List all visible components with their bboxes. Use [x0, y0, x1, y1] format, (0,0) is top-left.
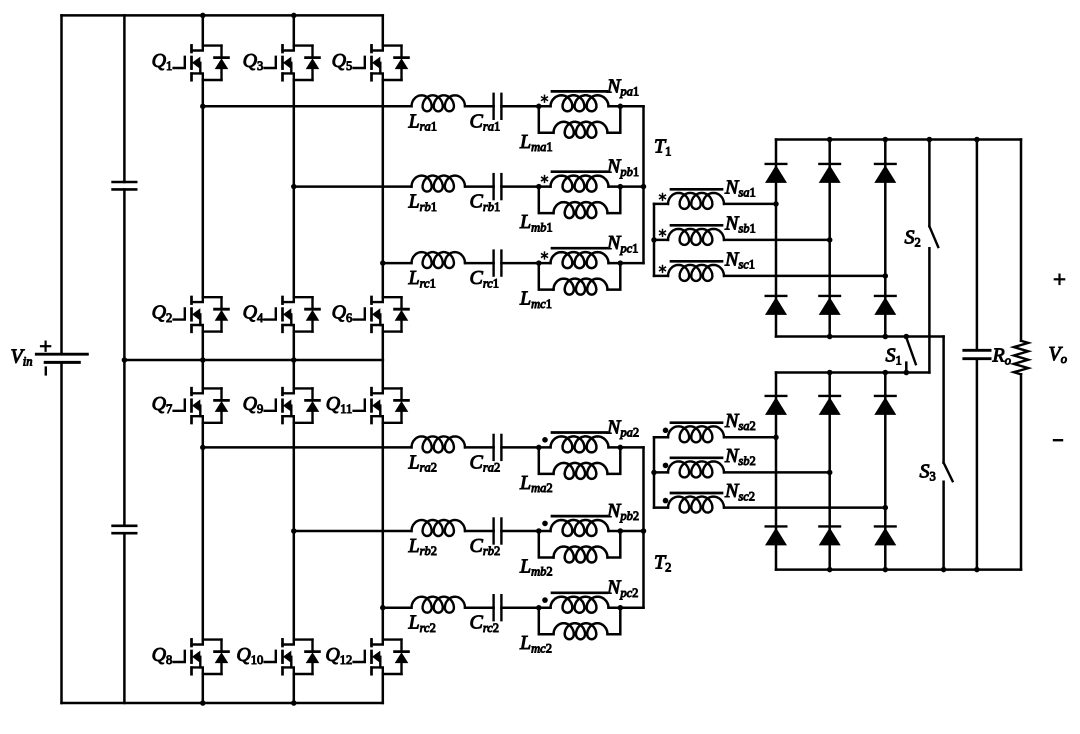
label Lrb2: [408, 535, 438, 558]
wire phase a1 from leg1 to Lra1: [203, 105, 412, 108]
polarity mark primary b1: [542, 176, 548, 183]
node primary a2 right: [618, 445, 624, 451]
polarity mark primary b2: [542, 521, 548, 527]
label Npa1: [606, 75, 639, 98]
node top rail leg1: [200, 13, 206, 19]
node rect1 bottom S1: [904, 334, 910, 340]
wire Lrc1 to Crc1: [465, 262, 494, 265]
node rect2 bottom Co: [974, 567, 980, 573]
label Q12: [325, 644, 352, 667]
node phase a2 tap on leg1: [200, 445, 206, 451]
wire secondary sa1 to rectifier leg1: [724, 203, 776, 206]
switch S3: [944, 463, 953, 570]
node phase a1 tap on leg1: [200, 104, 206, 110]
diode D23 rect2 top leg2: [819, 396, 841, 415]
winding Npc1: [551, 252, 609, 268]
label S3: [920, 461, 936, 484]
polarity mark secondary sa1: [660, 194, 666, 201]
label Crc1: [470, 267, 500, 290]
winding Npb2: [551, 520, 609, 536]
core bar Nsa2: [671, 421, 722, 424]
wire rectifier2 leg3: [884, 373, 887, 570]
node secondary sc1 at leg: [883, 273, 889, 279]
winding Nsb2: [668, 461, 724, 477]
winding Npb1: [551, 176, 609, 192]
label Nsa1: [724, 176, 756, 199]
polarity mark secondary sb2: [663, 463, 669, 469]
node top rail leg2r: [827, 137, 833, 143]
label Q2: [152, 302, 173, 325]
wire input cap bus middle: [123, 189, 126, 525]
wire phase c2 from leg3 to Lrc2: [383, 606, 412, 609]
wire rectifier1 leg1: [775, 140, 778, 337]
inductor Lrc1: [412, 252, 466, 268]
wire bottom rail: [62, 702, 383, 705]
transistor Q11: [354, 388, 409, 423]
inductor Lmc1: [539, 263, 621, 295]
capacitor Crb2: [494, 519, 502, 544]
node rect2 bottom leg3: [883, 567, 889, 573]
capacitor Crb1: [494, 174, 502, 199]
capacitor Co: [964, 350, 990, 358]
inductor Lmb2: [539, 531, 621, 563]
label Cra2: [470, 451, 501, 474]
label Q11: [326, 393, 353, 416]
wire secondary sc1 bus stub: [654, 275, 668, 278]
wire mid rail: [124, 359, 382, 362]
winding Nsa1: [668, 193, 724, 209]
capacitor input upper: [113, 182, 137, 189]
label plus output: [1055, 275, 1064, 284]
core bar Npb2: [552, 515, 607, 518]
diode D14 rect1 bottom leg2: [819, 296, 841, 315]
node secondary sc2 at leg: [883, 505, 889, 511]
node T2 secondary bus phase b: [651, 470, 657, 476]
node primary b2 right: [618, 528, 624, 534]
node top rail S2: [927, 137, 933, 143]
polarity mark secondary sb1: [660, 230, 666, 237]
transistor Q5: [354, 45, 409, 80]
wire input cap bus upper: [123, 15, 126, 182]
wire primary b1 to bus: [609, 185, 644, 188]
node bottom rail leg2: [291, 700, 297, 706]
node primary b2 left: [536, 528, 542, 534]
inductor Lrb1: [412, 176, 466, 192]
diode D12 rect1 bottom leg1: [765, 296, 787, 315]
wire secondary sb1 to rectifier leg2: [724, 239, 830, 242]
wire rectifier2 leg2: [828, 373, 831, 570]
node secondary sb1 at leg: [827, 237, 833, 243]
transistor Q3: [265, 45, 320, 80]
label Q3: [243, 50, 264, 73]
label Npb2: [606, 500, 639, 523]
capacitor input lower: [113, 526, 137, 533]
wire phase c1 from leg3 to Lrc1: [383, 262, 412, 265]
node secondary sb2 at leg: [827, 470, 833, 476]
wire leg1 segments: [202, 15, 205, 703]
polarity mark primary a1: [542, 95, 548, 102]
core bar Npb1: [552, 170, 607, 173]
label Lmb1: [519, 211, 553, 234]
node phase b2 tap on leg2: [291, 528, 297, 534]
label Q9: [243, 393, 264, 416]
label S2: [905, 227, 921, 250]
label Q6: [332, 302, 353, 325]
wire rectifier2 leg1: [775, 373, 778, 570]
label S1: [886, 345, 902, 368]
wire secondary sa2 to rectifier leg1: [724, 436, 776, 439]
node secondary sa1 at leg: [773, 201, 779, 207]
inductor Lma2: [539, 447, 621, 479]
node rect1 bottom leg2: [827, 334, 833, 340]
label Nsa2: [724, 410, 756, 433]
core bar Npa1: [552, 90, 607, 93]
node mid rail leg1: [200, 357, 206, 363]
wire rect2 bottom rail: [776, 568, 1021, 571]
wire Lra2 to Cra2: [465, 446, 494, 449]
label T1: [654, 136, 671, 159]
node primary c1 right: [618, 260, 624, 266]
diode D11 rect1 top leg1: [765, 164, 787, 183]
wire Cra2 to node: [501, 446, 550, 449]
wire rect1 bottom rail: [776, 335, 944, 338]
wire Ro branch upper: [1020, 140, 1023, 341]
polarity mark secondary sc1: [660, 266, 666, 273]
core bar Npc2: [552, 591, 607, 594]
polarity mark secondary sc2: [663, 498, 669, 504]
inductor Lra1: [412, 95, 466, 111]
label Npc2: [606, 577, 638, 600]
wire T1 secondary bus: [653, 204, 656, 276]
node primary b1 right: [618, 184, 624, 190]
node primary b1 left: [536, 184, 542, 190]
wire T2 primary bus: [642, 447, 645, 607]
label Ro: [992, 345, 1011, 368]
wire left vertical top (Vin+ to top rail): [60, 15, 63, 354]
label Lra1: [408, 110, 438, 133]
node T2 primary bus phase b: [641, 528, 647, 534]
polarity mark secondary sa2: [663, 428, 669, 434]
wire Lrb1 to Crb1: [465, 185, 494, 188]
wire secondary sa2 bus stub: [654, 436, 668, 439]
wire secondary sc1 to rectifier leg3: [724, 275, 885, 278]
transistor Q1: [174, 45, 229, 80]
node primary a2 left: [536, 445, 542, 451]
node primary c2 left: [536, 605, 542, 611]
winding Nsb1: [668, 229, 724, 245]
label Lmc2: [519, 632, 552, 655]
capacitor Crc1: [494, 251, 502, 276]
node top rail leg2: [291, 13, 297, 19]
label Npb1: [606, 156, 639, 179]
node secondary sa2 at leg: [773, 435, 779, 441]
wire secondary sc2 bus stub: [654, 506, 668, 509]
core bar Nsa1: [671, 188, 722, 191]
node mid rail leg2: [291, 357, 297, 363]
polarity mark primary c1: [542, 252, 548, 259]
label Vin: [11, 346, 33, 369]
capacitor Crc2: [494, 595, 502, 620]
node rect2 top leg2: [827, 370, 833, 376]
node T1 secondary bus phase b: [651, 237, 657, 243]
wire left vertical bottom (Vin- to bottom rail): [60, 363, 63, 703]
wire phase a2 from leg1 to Lra2: [203, 446, 412, 449]
label Q1: [152, 50, 173, 73]
winding Npa1: [551, 95, 609, 111]
node top rail leg3r: [883, 137, 889, 143]
diode D21 rect2 top leg1: [765, 396, 787, 415]
label Crc2: [470, 612, 500, 635]
wire Cra1 to node: [501, 105, 550, 108]
transistor Q8: [174, 639, 229, 674]
core bar Npc1: [552, 247, 607, 250]
inductor Lra2: [412, 436, 466, 452]
inductor Lmc2: [539, 608, 621, 640]
label Lrc1: [408, 267, 436, 290]
wire output cap branch lower: [976, 359, 979, 570]
node top rail Co: [974, 137, 980, 143]
core bar Nsc1: [671, 260, 722, 263]
node bottom rail leg1: [200, 700, 206, 706]
wire T1 primary bus: [642, 106, 645, 263]
node mid rail cap bus: [122, 357, 128, 363]
wire primary a1 to bus: [609, 105, 644, 108]
wire secondary sb1 bus stub: [654, 239, 668, 242]
label Lra2: [408, 451, 438, 474]
transistor Q10: [265, 639, 320, 674]
wire secondary sb2 bus stub: [654, 471, 668, 474]
wire leg3 segments: [382, 15, 385, 703]
label Cra1: [470, 110, 501, 133]
diode D25 rect2 top leg3: [874, 396, 896, 415]
wire phase b2 from leg2 to Lrb2: [294, 530, 412, 533]
transistor Q12: [354, 639, 409, 674]
label Crb1: [470, 191, 501, 214]
wire secondary sc2 to rectifier leg3: [724, 506, 885, 509]
node primary c2 right: [618, 605, 624, 611]
wire secondary sb2 to rectifier leg2: [724, 471, 830, 474]
label Npc1: [606, 232, 638, 255]
diode D26 rect2 bottom leg3: [874, 526, 896, 545]
core bar Nsc2: [671, 492, 722, 495]
wire rectifier1 leg3: [884, 140, 887, 337]
diode D15 rect1 top leg3: [874, 164, 896, 183]
winding Nsa2: [668, 426, 724, 442]
wire Lra1 to Cra1: [465, 105, 494, 108]
wire primary c2 to bus: [609, 606, 644, 609]
label Crb2: [470, 535, 501, 558]
core bar Npa2: [552, 431, 607, 434]
diode D22 rect2 bottom leg1: [765, 526, 787, 545]
label Nsb2: [724, 445, 756, 468]
wire output cap branch upper: [976, 140, 979, 351]
diode D24 rect2 bottom leg2: [819, 526, 841, 545]
node primary c1 left: [536, 260, 542, 266]
battery Vin: [36, 342, 87, 375]
wire output top rail: [776, 138, 1021, 141]
label Q5: [332, 50, 353, 73]
resistor Ro: [1014, 341, 1028, 375]
wire top rail: [62, 14, 383, 17]
wire leg2 segments: [293, 15, 296, 703]
switch S2: [929, 140, 938, 373]
node T1 primary bus phase b: [641, 184, 647, 190]
node phase c1 tap on leg3: [380, 260, 386, 266]
node primary a1 left: [536, 104, 542, 110]
wire rectifier1 leg2: [828, 140, 831, 337]
inductor Lma1: [539, 106, 621, 138]
wire primary c1 to bus: [609, 262, 644, 265]
wire Ro branch lower: [1020, 374, 1023, 569]
label Q10: [236, 644, 263, 667]
label Nsc1: [724, 248, 755, 271]
node rect2 top leg3: [883, 370, 889, 376]
switch S1: [906, 338, 916, 373]
label Q7: [152, 393, 173, 416]
diode D16 rect1 bottom leg3: [874, 296, 896, 315]
transistor Q4: [265, 297, 320, 332]
label Lrb1: [408, 191, 438, 214]
label Nsc2: [724, 480, 755, 503]
inductor Lrc2: [412, 597, 466, 613]
wire primary b2 to bus: [609, 530, 644, 533]
inductor Lrb2: [412, 520, 466, 536]
wire primary a2 to bus: [609, 446, 644, 449]
core bar Nsb1: [671, 224, 722, 227]
wire Crb2 to node: [501, 530, 550, 533]
wire secondary sa1 bus stub: [654, 203, 668, 206]
transistor Q6: [354, 297, 409, 332]
winding Npa2: [551, 436, 609, 452]
label Lmc1: [519, 288, 552, 311]
wire T2 secondary bus: [653, 437, 656, 507]
label Q4: [243, 302, 264, 325]
node primary a1 right: [618, 104, 624, 110]
wire Crc1 to node: [501, 262, 550, 265]
label Lma1: [519, 131, 553, 154]
inductor Lmb1: [539, 187, 621, 219]
node phase b1 tap on leg2: [291, 184, 297, 190]
node rect1 bottom leg3: [883, 334, 889, 340]
winding Nsc2: [668, 497, 724, 513]
wire phase b1 from leg2 to Lrb1: [294, 185, 412, 188]
label Vo: [1049, 343, 1067, 366]
label Npa2: [606, 416, 639, 439]
wire Lrc2 to Crc2: [465, 606, 494, 609]
label Lmb2: [519, 556, 553, 579]
polarity mark primary a2: [542, 437, 548, 443]
transistor Q7: [174, 388, 229, 423]
label Nsb1: [724, 212, 756, 235]
wire Crc2 to node: [501, 606, 550, 609]
label minus output: [1054, 439, 1062, 441]
label Lma2: [519, 472, 553, 495]
polarity mark primary c2: [542, 597, 548, 603]
transistor Q2: [174, 297, 229, 332]
capacitor Cra2: [494, 435, 502, 460]
node rect2 top S1: [904, 370, 910, 376]
capacitor Cra1: [494, 94, 502, 119]
wire input cap bus lower: [123, 533, 126, 703]
node rect2 bottom leg2: [827, 567, 833, 573]
winding Nsc1: [668, 265, 724, 281]
transistor Q9: [265, 388, 320, 423]
wire Lrb2 to Crb2: [465, 530, 494, 533]
label T2: [654, 552, 671, 575]
node phase c2 tap on leg3: [380, 605, 386, 611]
wire rect2 top rail: [776, 371, 929, 374]
winding Npc2: [551, 597, 609, 613]
core bar Nsb2: [671, 456, 722, 459]
diode D13 rect1 top leg2: [819, 164, 841, 183]
wire Crb1 to node: [501, 185, 550, 188]
label Lrc2: [408, 612, 436, 635]
node rect2 bottom S3: [941, 567, 947, 573]
wire rect1 bottom rail extension to S3: [942, 337, 945, 463]
label Q8: [152, 644, 173, 667]
